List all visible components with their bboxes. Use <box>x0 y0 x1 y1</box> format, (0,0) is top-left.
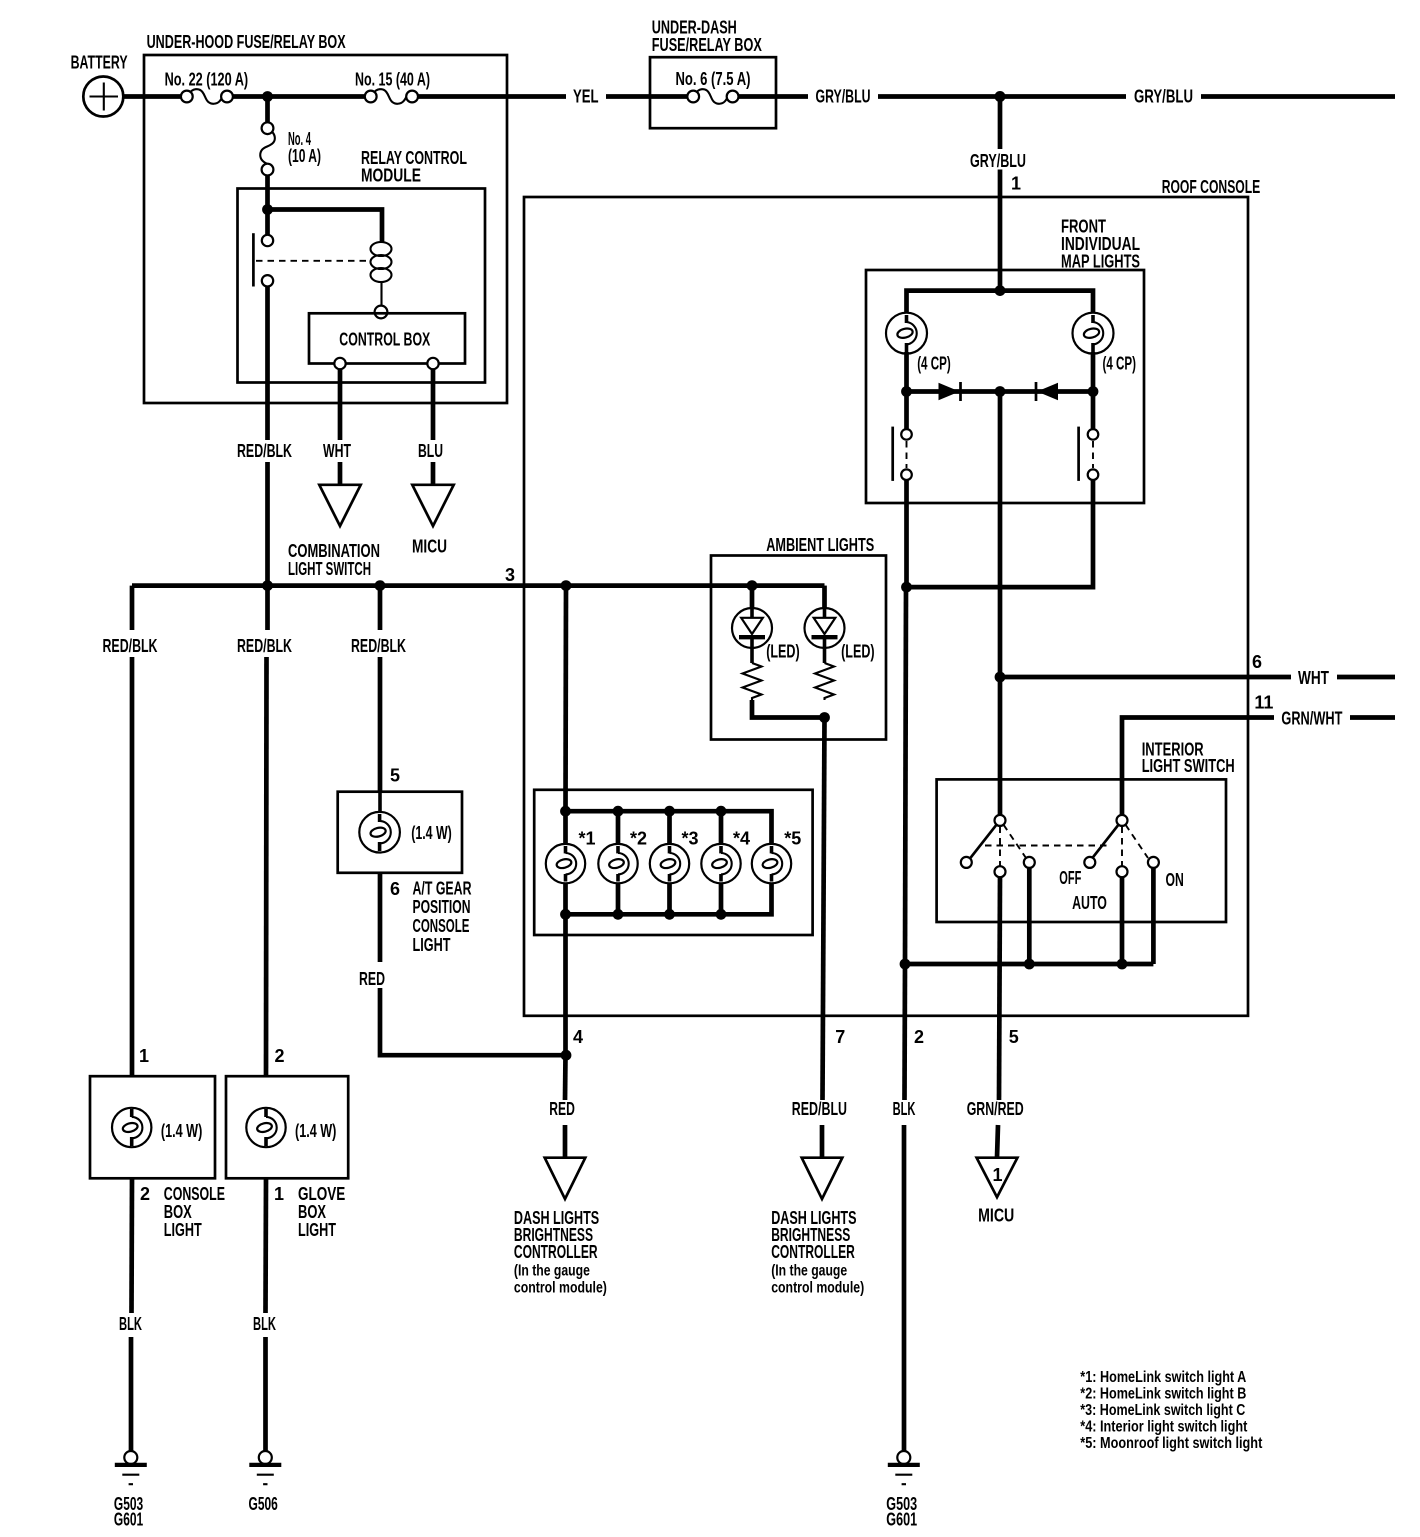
node RED junction <box>561 1050 572 1061</box>
homelink lights box <box>534 790 812 935</box>
svg-text:(4 CP): (4 CP) <box>917 354 951 374</box>
wire YEL to under-dash box <box>606 94 687 99</box>
ground G503/G601 center <box>886 1451 920 1530</box>
svg-text:ROOF CONSOLE: ROOF CONSOLE <box>1162 177 1261 197</box>
map light switch right <box>1079 392 1099 481</box>
svg-text:5: 5 <box>1009 1027 1019 1047</box>
wire right switch down and across <box>907 480 1094 587</box>
svg-text:FUSE/RELAY BOX: FUSE/RELAY BOX <box>652 35 762 55</box>
control box <box>309 313 465 369</box>
svg-text:OFF: OFF <box>1059 868 1081 888</box>
node bus OFF <box>1024 959 1035 970</box>
svg-text:ON: ON <box>1166 870 1184 890</box>
wire homelink main column <box>563 586 568 812</box>
svg-text:control module): control module) <box>514 1280 607 1297</box>
svg-text:1: 1 <box>139 1046 149 1066</box>
wire GRN/WHT right stub <box>1350 715 1395 720</box>
svg-text:(LED): (LED) <box>766 642 800 662</box>
wire BLK glove <box>263 1178 268 1313</box>
svg-text:MODULE: MODULE <box>361 166 421 186</box>
svg-text:A/T GEAR: A/T GEAR <box>413 878 472 898</box>
svg-text:BOX: BOX <box>298 1202 326 1222</box>
bulb *4 interior light switch light <box>701 828 750 883</box>
svg-text:*3: *3 <box>682 828 699 848</box>
svg-text:GRN/WHT: GRN/WHT <box>1281 709 1342 729</box>
wire BLU from control box <box>431 369 436 440</box>
fuse No.4 (10 A) <box>260 97 321 176</box>
wire GRY/BLU continues to map lights <box>998 170 1003 291</box>
label A/T gear position console light <box>413 878 472 955</box>
node relay junction <box>262 204 273 215</box>
svg-text:1: 1 <box>993 1165 1003 1185</box>
label dash lights brightness controller right <box>771 1208 864 1297</box>
svg-text:No. 6 (7.5 A): No. 6 (7.5 A) <box>676 69 751 89</box>
wire WHT right stub <box>1337 675 1395 680</box>
roof console box <box>524 177 1260 1016</box>
wire fuse6 to GRY/BLU gap <box>739 94 809 99</box>
svg-text:CONSOLE: CONSOLE <box>164 1184 225 1204</box>
wire homelink bottom bus <box>566 882 772 914</box>
node WHT tap <box>995 672 1006 683</box>
svg-text:MICU: MICU <box>412 537 447 557</box>
interior switch left pole <box>961 815 1035 877</box>
wire GRN/WHT from pin 11 <box>1122 718 1274 816</box>
svg-text:RED/BLK: RED/BLK <box>103 636 158 656</box>
fuse No.6 (7.5 A) <box>676 69 751 104</box>
ground G503/G601 left <box>114 1451 147 1530</box>
svg-text:3: 3 <box>505 565 515 585</box>
node junction at No.4 branch <box>262 91 273 102</box>
wire left pole middle contact to pin 5 <box>999 877 1000 1100</box>
svg-text:GRY/BLU: GRY/BLU <box>970 151 1026 171</box>
svg-text:AMBIENT LIGHTS: AMBIENT LIGHTS <box>766 535 874 555</box>
wire left switch down to node <box>904 480 909 587</box>
homelink column wires <box>563 811 568 914</box>
fuse No.15 (40 A) <box>355 70 430 104</box>
map light bulb right (4 CP) <box>1073 313 1137 374</box>
svg-text:RED/BLK: RED/BLK <box>237 441 292 461</box>
svg-text:BLK: BLK <box>119 1314 142 1334</box>
wire AUTO contact to ground bus <box>1120 877 1125 964</box>
ambient lights box <box>711 535 886 740</box>
wire GRN/RED to arrow <box>997 1125 998 1158</box>
svg-text:11: 11 <box>1254 693 1273 713</box>
map light bulb left (4 CP) <box>886 313 951 374</box>
svg-text:BLK: BLK <box>893 1099 916 1119</box>
svg-text:6: 6 <box>1252 652 1262 672</box>
connector arrow MICU pin 1 <box>977 1158 1018 1226</box>
connector arrow dash lights brightness controller left <box>545 1158 586 1199</box>
node diode row right <box>1088 386 1099 397</box>
wire RED to arrow <box>563 1125 568 1158</box>
svg-text:LIGHT SWITCH: LIGHT SWITCH <box>1142 756 1235 776</box>
svg-text:control module): control module) <box>771 1280 864 1297</box>
svg-text:*3: HomeLink switch light C: *3: HomeLink switch light C <box>1080 1402 1245 1419</box>
node top bus 2 <box>613 806 624 817</box>
svg-text:CONSOLE: CONSOLE <box>413 916 470 936</box>
wire WHT to pin 6 <box>1000 675 1291 680</box>
svg-text:RED/BLU: RED/BLU <box>792 1099 847 1119</box>
svg-text:CONTROL BOX: CONTROL BOX <box>339 330 430 350</box>
node 3-line homelink column <box>561 580 572 591</box>
wire fuse4 to relay <box>265 176 270 237</box>
relay control module box <box>238 148 486 383</box>
bulb *1 HomeLink switch light A <box>546 828 596 883</box>
bulb A/T gear light <box>359 792 400 853</box>
wire center line map lights to WHT node <box>998 392 1003 678</box>
wire RED/BLU to arrow <box>820 1125 825 1158</box>
bulb console box light <box>112 1108 151 1147</box>
svg-text:1: 1 <box>1011 174 1021 194</box>
svg-text:LIGHT: LIGHT <box>164 1220 202 1240</box>
A/T gear position console light box <box>338 766 462 873</box>
node top bus 1 <box>560 806 571 817</box>
node diode row center <box>995 386 1006 397</box>
wire fuse15 to YEL gap <box>418 94 566 99</box>
svg-text:No. 22 (120 A): No. 22 (120 A) <box>165 70 249 90</box>
svg-text:2: 2 <box>914 1027 924 1047</box>
resistor left <box>743 663 762 700</box>
wire RED/BLK column glove <box>265 586 270 630</box>
svg-text:G506: G506 <box>249 1494 278 1514</box>
bulb glove box light <box>246 1108 285 1147</box>
svg-text:(1.4 W): (1.4 W) <box>295 1121 336 1141</box>
wire battery to fuse No.22 <box>123 94 181 99</box>
console box light box <box>90 1046 215 1178</box>
relay switch <box>253 233 368 286</box>
svg-text:GLOVE: GLOVE <box>298 1184 345 1204</box>
node bottom bus 4 <box>716 909 727 920</box>
node top bus 4 <box>716 806 727 817</box>
node bus AUTO <box>1117 959 1128 970</box>
wire RED/BLK column A/T <box>378 586 383 630</box>
wire to left LED <box>750 586 755 608</box>
svg-text:LIGHT: LIGHT <box>413 935 451 955</box>
wire homelink top bus <box>566 811 772 845</box>
node map switch ground tie <box>901 582 912 593</box>
wire OFF contact to ground bus <box>1027 868 1032 964</box>
node bottom bus 1 <box>560 909 571 920</box>
wire BLK vertical down from node <box>905 587 906 964</box>
svg-text:LIGHT: LIGHT <box>298 1220 336 1240</box>
wire homelink main column down <box>563 914 568 1055</box>
label console box light <box>140 1184 225 1240</box>
svg-text:BLK: BLK <box>253 1314 276 1334</box>
bulb *5 moonroof light switch light <box>752 828 801 883</box>
svg-text:GRY/BLU: GRY/BLU <box>1134 87 1193 107</box>
node 3-line ambient LED left <box>747 580 758 591</box>
svg-text:2: 2 <box>275 1046 285 1066</box>
svg-text:CONTROLLER: CONTROLLER <box>514 1242 598 1262</box>
svg-text:(1.4 W): (1.4 W) <box>411 823 452 843</box>
interior switch right pole <box>1084 815 1159 877</box>
mechanical link dashed <box>985 845 1108 847</box>
node main junction pin1 branch <box>995 91 1006 102</box>
svg-text:(LED): (LED) <box>841 642 875 662</box>
diode right <box>1036 382 1058 401</box>
connector arrow dash lights brightness controller right <box>802 1158 843 1199</box>
wire WHT from control box <box>338 369 343 440</box>
svg-text:COMBINATION: COMBINATION <box>288 541 380 561</box>
wire ground bus <box>905 962 1153 967</box>
wire RED/BLK continues to node 3 line <box>265 462 270 586</box>
under-hood fuse/relay box <box>144 32 507 403</box>
node top bus junction <box>995 285 1006 296</box>
wire RED/BLU down from ambient <box>823 718 825 1101</box>
bulb *3 HomeLink switch light C <box>650 828 699 883</box>
svg-text:G601: G601 <box>114 1510 143 1530</box>
svg-text:*2: HomeLink switch light B: *2: HomeLink switch light B <box>1080 1385 1246 1402</box>
svg-text:GRN/RED: GRN/RED <box>967 1099 1024 1119</box>
svg-text:RED/BLK: RED/BLK <box>351 636 406 656</box>
svg-text:*5: *5 <box>784 828 801 848</box>
node bottom bus 2 <box>613 909 624 920</box>
label dash lights brightness controller left <box>514 1208 607 1297</box>
wire ambient bottom bus <box>752 700 825 718</box>
svg-text:(In the gauge: (In the gauge <box>771 1263 847 1280</box>
node bottom bus 3 <box>664 909 675 920</box>
wire ON contact to ground bus <box>1151 868 1156 964</box>
svg-text:*4: Interior light switch ligh: *4: Interior light switch light <box>1080 1418 1247 1435</box>
svg-text:G601: G601 <box>886 1510 917 1530</box>
svg-text:AUTO: AUTO <box>1072 893 1107 913</box>
svg-text:MICU: MICU <box>978 1206 1014 1226</box>
node ambient output <box>819 712 830 723</box>
svg-text:6: 6 <box>390 879 400 899</box>
footnotes <box>1080 1369 1262 1452</box>
wire GRY/BLU to junction <box>878 94 1126 99</box>
resistor right <box>815 663 834 700</box>
wire BLK console <box>129 1178 134 1313</box>
wire RED/BLK from relay switch down <box>265 287 270 441</box>
wire GRY/BLU to right edge <box>1201 94 1395 99</box>
ground G506 <box>249 1451 282 1514</box>
LED right <box>805 608 875 663</box>
diode left <box>939 382 961 401</box>
svg-text:1: 1 <box>274 1184 284 1204</box>
svg-text:CONTROLLER: CONTROLLER <box>771 1242 855 1262</box>
wire GRY/BLU vertical from junction <box>998 97 1003 150</box>
relay coil terminal <box>375 306 388 319</box>
fuse No.22 (120 A) <box>165 70 249 104</box>
svg-text:YEL: YEL <box>573 87 599 107</box>
svg-text:5: 5 <box>390 766 400 786</box>
wire RED main down <box>563 1055 568 1100</box>
wire fuse22 to fuse15 <box>233 94 365 99</box>
glove box light box <box>226 1046 348 1178</box>
wire to right LED <box>822 586 827 608</box>
svg-text:BATTERY: BATTERY <box>71 53 128 73</box>
wire bulbs to diode row <box>904 352 909 392</box>
svg-text:*1: HomeLink switch light A: *1: HomeLink switch light A <box>1080 1369 1246 1386</box>
svg-text:*5: Moonroof light switch ligh: *5: Moonroof light switch light <box>1080 1435 1262 1452</box>
label glove box light <box>274 1184 345 1240</box>
svg-text:*4: *4 <box>733 828 750 848</box>
svg-text:UNDER-HOOD FUSE/RELAY BOX: UNDER-HOOD FUSE/RELAY BOX <box>147 32 346 52</box>
node 3-line A/T column <box>375 580 386 591</box>
svg-text:RED/BLK: RED/BLK <box>237 636 292 656</box>
svg-text:MAP LIGHTS: MAP LIGHTS <box>1061 251 1140 271</box>
svg-text:No. 15 (40 A): No. 15 (40 A) <box>355 70 430 90</box>
svg-text:7: 7 <box>835 1027 845 1047</box>
svg-text:BLU: BLU <box>418 441 443 461</box>
svg-text:LIGHT SWITCH: LIGHT SWITCH <box>288 559 371 579</box>
node 3-line glove column <box>262 580 273 591</box>
wire feed to left pole <box>998 677 1003 815</box>
svg-text:4: 4 <box>573 1027 583 1047</box>
interior light switch box <box>937 740 1235 922</box>
wire relay top to coil <box>268 210 383 243</box>
bulb *2 HomeLink switch light B <box>598 828 647 883</box>
svg-text:WHT: WHT <box>1298 668 1329 688</box>
wire BLK down to pin 2 <box>902 964 907 1100</box>
svg-text:(In the gauge: (In the gauge <box>514 1263 590 1280</box>
svg-text:WHT: WHT <box>323 441 351 461</box>
connector arrow to MICU <box>412 485 453 526</box>
svg-text:2: 2 <box>140 1184 150 1204</box>
wire 3 horizontal RED/BLK <box>132 583 825 588</box>
node bus BLK <box>900 959 911 970</box>
map light switch left <box>893 392 912 481</box>
wire A/T jog to main RED line <box>378 873 383 962</box>
svg-text:POSITION: POSITION <box>413 897 471 917</box>
under-dash fuse/relay box <box>650 18 776 129</box>
wire map lights top bus <box>907 291 1094 313</box>
svg-text:RED: RED <box>549 1099 575 1119</box>
front individual map lights box <box>866 217 1144 503</box>
svg-text:*2: *2 <box>630 828 647 848</box>
connector arrow to combination light switch <box>319 485 360 526</box>
wire RED/BLK column console <box>130 586 135 630</box>
svg-text:*1: *1 <box>579 828 596 848</box>
svg-text:(10 A): (10 A) <box>288 146 321 166</box>
wire A/T continues to junction <box>380 988 566 1055</box>
relay coil <box>371 242 392 306</box>
svg-text:BOX: BOX <box>164 1202 192 1222</box>
wire diode row <box>907 389 1094 394</box>
battery <box>71 53 128 117</box>
node diode row left <box>901 386 912 397</box>
svg-text:(4 CP): (4 CP) <box>1103 354 1137 374</box>
svg-text:(1.4 W): (1.4 W) <box>161 1121 202 1141</box>
wire BLK to ground <box>902 1125 907 1451</box>
LED left <box>732 608 800 663</box>
svg-text:GRY/BLU: GRY/BLU <box>816 87 871 107</box>
svg-text:RED: RED <box>359 969 385 989</box>
node top bus 3 <box>664 806 675 817</box>
